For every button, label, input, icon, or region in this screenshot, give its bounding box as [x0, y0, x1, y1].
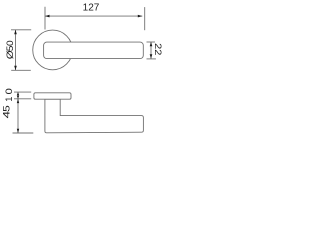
svg-text:1: 1 [3, 96, 14, 101]
neck and grip outline (side view) [45, 99, 143, 133]
arrow up D50 [14, 30, 17, 35]
svg-text:5: 5 [5, 46, 15, 52]
svg-text:2: 2 [152, 49, 162, 56]
arrow right 127 [138, 15, 143, 18]
extension line left (127) [44, 7, 46, 30]
extension line right (127) [144, 7, 146, 30]
rose circle (top view) [33, 30, 73, 70]
tick 2 (10 bottom / 45 top) [14, 98, 31, 100]
arrow up 22 [150, 42, 153, 46]
svg-text:5: 5 [2, 105, 12, 112]
tick 3 (45 bottom) [13, 132, 34, 134]
arrow up 45 [17, 99, 19, 103]
label 10 [3, 88, 15, 102]
arrow up 10 [17, 92, 19, 95]
rose plate rect (side view) [34, 93, 71, 99]
arrow down 22 [150, 54, 153, 58]
label D50 [5, 40, 15, 59]
tick bottom (22) [147, 58, 156, 60]
tick top (22) [147, 41, 156, 43]
lever bar (top view) [44, 42, 144, 59]
dimension line D50 [15, 30, 17, 71]
arrow down 10 [17, 96, 19, 99]
dimension line 127 [45, 15, 142, 17]
label 45 [2, 105, 12, 118]
arrow left 127 [45, 15, 50, 18]
svg-text:0: 0 [5, 88, 15, 95]
dimension line 10+45 [17, 92, 19, 133]
label 22 [152, 43, 162, 56]
svg-text:0: 0 [5, 40, 15, 46]
tick bottom (D50) [11, 69, 31, 71]
tick top (D50) [11, 29, 31, 31]
tick 1 (10 top) [14, 91, 31, 93]
dimension line 22 [150, 42, 152, 59]
arrow down D50 [14, 66, 17, 71]
svg-text:Ø: Ø [6, 50, 16, 59]
svg-text:127: 127 [83, 3, 100, 14]
arrow down 45 [17, 129, 19, 133]
